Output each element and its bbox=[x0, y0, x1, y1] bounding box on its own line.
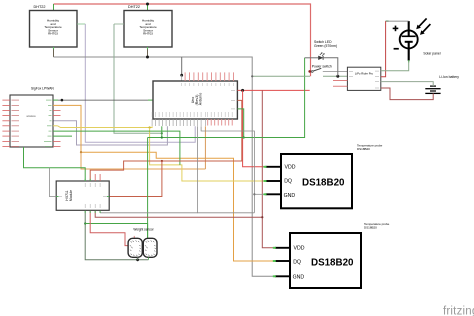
HX711 top red stubs bbox=[94, 174, 96, 181]
junction DHT2 gnd bbox=[146, 56, 149, 59]
wire XBee pin1 to Arduino left pin dark bbox=[58, 99, 148, 101]
wire HX711 pin4 bottom gray bbox=[99, 211, 101, 213]
svg-text:GND: GND bbox=[293, 274, 305, 280]
wire DHT2 data pin stub bbox=[114, 23, 124, 25]
wire XBee pin1 green stub bbox=[53, 99, 58, 101]
wire DHT1 top pin green bbox=[53, 4, 55, 11]
arduino pin1 stub bbox=[181, 75, 183, 81]
XBee right unconnected red stubs bbox=[53, 110, 61, 146]
junction yellow branch bbox=[149, 126, 151, 128]
junction red VDD branch bbox=[241, 89, 244, 92]
junction orange branch bbox=[80, 151, 82, 153]
junction green T bbox=[161, 136, 163, 138]
wire arduino left pin green tip bbox=[148, 99, 153, 101]
wire XBee pin5 violet to arduino bbox=[53, 121, 167, 145]
HX711 side green tips bbox=[56, 196, 58, 198]
wire green main loop bbox=[148, 58, 305, 138]
wire HX711 left pin gray bbox=[49, 168, 56, 197]
wire Arduino right pin2 brick to HX711 bbox=[90, 100, 242, 181]
wire XBee pin6 yellow to arduino bbox=[53, 125, 58, 127]
solar panel symbol bbox=[393, 18, 441, 62]
microcontroller Arduino bbox=[153, 81, 237, 119]
load cell bottom stubs bbox=[137, 257, 139, 260]
wire solar red drop to LiPo pin2 bbox=[381, 21, 386, 77]
wire gray gnd from arduino to DS1 GND bbox=[201, 126, 254, 213]
temperature sensor DS18B20 #1 bbox=[264, 144, 383, 209]
Arduino pin labels bottom rotated bbox=[152, 112, 232, 117]
wire HX711 pin3 bottom maroon bbox=[95, 211, 262, 217]
humidity sensor DHT22 #1 bbox=[30, 5, 78, 47]
junction rail-DHT2 bbox=[146, 3, 149, 6]
svg-text:Li-Ion battery: Li-Ion battery bbox=[439, 75, 459, 79]
wire gray to DS1 GND bbox=[254, 193, 265, 195]
svg-text:Solar panel: Solar panel bbox=[423, 52, 440, 56]
junction gray gnd bbox=[253, 193, 255, 195]
svg-text:Arduino: Arduino bbox=[199, 93, 203, 105]
junction LED branch bbox=[336, 75, 339, 78]
wire XBee pin8 green short bbox=[53, 135, 72, 137]
Arduino top pins red stubs bbox=[185, 72, 233, 81]
Arduino right pin labels bbox=[231, 90, 235, 109]
svg-text:Weight sensor: Weight sensor bbox=[133, 228, 154, 232]
wire Arduino right pin1 red to rail drop bbox=[237, 89, 309, 91]
svg-text:Green (570nm): Green (570nm) bbox=[314, 44, 337, 48]
junction arduino pin1 bbox=[180, 74, 183, 77]
XBee left pins red stubs bbox=[2, 100, 10, 146]
svg-text:VDD: VDD bbox=[294, 246, 305, 252]
svg-text:DS18B20: DS18B20 bbox=[302, 177, 345, 188]
HX711 top green tips bbox=[85, 179, 90, 181]
wire LiPo pin4 to battery minus bbox=[381, 88, 433, 100]
wire LED anode gray bbox=[305, 57, 319, 59]
wire red VCC rail top bbox=[54, 4, 311, 76]
wire DHT1 data lavender to arduino bbox=[85, 24, 195, 142]
radio module SigFox LPWAN bbox=[10, 87, 54, 148]
svg-text:DHT22: DHT22 bbox=[34, 5, 46, 9]
Arduino bottom right red stubs bbox=[208, 119, 233, 126]
wire gnd drop to arduino pin1 bbox=[181, 57, 183, 75]
Arduino bottom pin stubs connected bbox=[152, 119, 205, 126]
Arduino pin number labels top bbox=[182, 83, 234, 86]
svg-text:GND: GND bbox=[284, 193, 296, 199]
svg-text:DS18B20: DS18B20 bbox=[364, 225, 377, 229]
junction cells bottom bbox=[136, 258, 139, 261]
wire XBee pin7 green long bbox=[53, 131, 180, 165]
wire brick to HX711 right pin bbox=[109, 161, 162, 197]
svg-text:DHT22: DHT22 bbox=[128, 5, 140, 9]
svg-text:Power switch: Power switch bbox=[312, 65, 332, 69]
junction XBee pin1 bbox=[61, 99, 64, 102]
wire green riser from arduino bbox=[161, 126, 163, 137]
svg-text:DS18B20: DS18B20 bbox=[357, 147, 370, 151]
wire HX711 pin1 bottom green-gray to cells bbox=[85, 211, 148, 260]
power switch symbol bbox=[311, 65, 332, 73]
wire solar plus to red drop bbox=[386, 20, 409, 22]
wire gnd bus gray bbox=[54, 57, 275, 276]
junction red rail at switch bbox=[308, 70, 311, 73]
wire XBee pin2 orange to DS2 DQ bbox=[53, 105, 275, 261]
wire gray link bbox=[198, 212, 255, 214]
wire HX711 pin2 bottom red to left cell bbox=[90, 211, 128, 246]
HX711 bottom pin stubs bbox=[85, 211, 100, 213]
junction green branch HX bbox=[84, 222, 86, 224]
svg-text:RHT03: RHT03 bbox=[143, 32, 153, 36]
svg-text:DQ: DQ bbox=[284, 179, 292, 185]
svg-text:LiPo Rider Pro: LiPo Rider Pro bbox=[355, 71, 374, 75]
LED switch green indicator bbox=[314, 40, 337, 60]
wire solar minus to LiPo pin1 bbox=[381, 61, 409, 70]
load cell weight sensors bbox=[128, 228, 157, 258]
wire green to right cell top bbox=[85, 224, 147, 239]
wire HX711 pin1 top green bbox=[24, 147, 86, 181]
svg-text:VDD: VDD bbox=[285, 165, 296, 171]
power module LiPo Rider Pro bbox=[347, 67, 380, 90]
wire DHT2 top pin green bbox=[147, 4, 149, 11]
wire DHT1 gnd bottom olive bbox=[53, 47, 55, 57]
temperature sensor DS18B20 #2 bbox=[273, 222, 390, 288]
svg-text:Module: Module bbox=[69, 190, 73, 201]
battery Li-Ion bbox=[425, 75, 459, 93]
svg-text:DQ: DQ bbox=[293, 260, 301, 266]
junction green bbox=[243, 136, 245, 138]
wire gray gnd 2 from arduino bbox=[100, 126, 198, 213]
svg-text:RHT03: RHT03 bbox=[48, 32, 58, 36]
humidity sensor DHT22 #2 bbox=[124, 5, 172, 47]
wire green down to load cell bbox=[147, 138, 149, 239]
wire DHT2 data green to arduino bbox=[114, 24, 162, 133]
wire switch to LiPo pin1 gray bbox=[323, 70, 348, 72]
wire LED cathode to switch line bbox=[323, 58, 338, 77]
XBee left pin labels bbox=[12, 100, 20, 146]
svg-text:DS18B20: DS18B20 bbox=[311, 258, 354, 269]
amplifier HX711 module bbox=[56, 181, 109, 210]
svg-text:fritzing: fritzing bbox=[443, 306, 474, 316]
junction switch line bbox=[251, 75, 253, 77]
switch line gray-green bbox=[252, 75, 310, 77]
wire yellow branch to DS1 DQ bbox=[150, 128, 266, 182]
wire maroon to DS2 VDD bbox=[262, 90, 275, 247]
load cell top red stub bbox=[133, 236, 135, 238]
wire Arduino right pin3 green bbox=[237, 109, 243, 138]
wire DHT2 gnd bottom brown bbox=[147, 47, 149, 57]
LiPo left red stubs bbox=[333, 80, 347, 82]
wire switch to LiPo pin2 bbox=[323, 75, 347, 77]
wire orange branch to arduino bbox=[81, 152, 205, 169]
svg-text:wireless: wireless bbox=[26, 114, 36, 118]
svg-text:SigFox LPWAN: SigFox LPWAN bbox=[31, 87, 54, 91]
junction maroon bbox=[261, 216, 263, 218]
junction brick T bbox=[161, 160, 163, 162]
wire red branch to DS1 VDD bbox=[243, 90, 266, 166]
wire DHT1 data pin stub bbox=[77, 23, 85, 25]
XBee right pin labels bbox=[44, 100, 52, 146]
green tip solar top joint bbox=[386, 20, 389, 22]
junction DHT2-green riser bbox=[161, 132, 163, 134]
wire LiPo pin3 to battery plus bbox=[381, 82, 433, 87]
